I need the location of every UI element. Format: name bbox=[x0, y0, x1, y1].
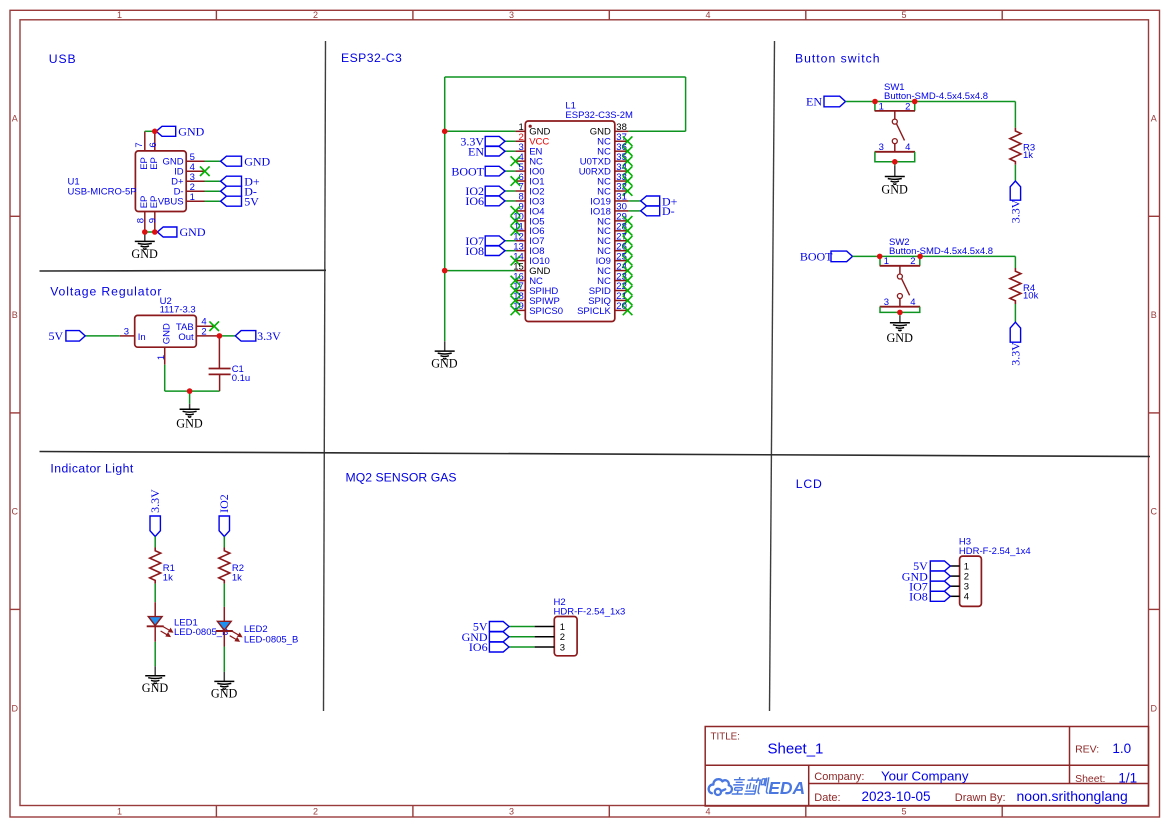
svg-text:3: 3 bbox=[124, 326, 129, 337]
svg-text:1: 1 bbox=[117, 10, 122, 20]
svg-text:GND: GND bbox=[886, 331, 913, 345]
svg-text:EN: EN bbox=[806, 95, 822, 109]
svg-text:7: 7 bbox=[134, 142, 145, 147]
no-connect X on U2 pin4 bbox=[209, 321, 219, 331]
net port GND bbox=[489, 632, 509, 642]
svg-text:4: 4 bbox=[705, 10, 710, 20]
ground symbol indicator 1 bbox=[154, 666, 156, 676]
title block border bbox=[705, 727, 1148, 807]
switch SW1 contact circle bottom bbox=[892, 139, 897, 144]
no-connect X on U1 pin 4 ID bbox=[200, 166, 210, 176]
net port 3.3V pentagon bbox=[150, 516, 160, 537]
svg-text:5V: 5V bbox=[49, 329, 64, 343]
LED LED2 cathode bar bbox=[216, 630, 233, 632]
wire down to R3 bbox=[1014, 102, 1016, 128]
L1 pin 13 IO8 stub bbox=[515, 250, 525, 252]
LED2 cathode stub bbox=[223, 631, 225, 647]
svg-text:D: D bbox=[1151, 703, 1158, 713]
svg-text:GND: GND bbox=[180, 225, 206, 239]
svg-text:EN: EN bbox=[468, 144, 484, 158]
svg-text:9: 9 bbox=[148, 218, 159, 223]
svg-text:5V: 5V bbox=[244, 194, 259, 208]
section divider vertical left/middle bbox=[324, 41, 326, 711]
svg-text:C: C bbox=[12, 507, 19, 517]
no-connect X pin 37 bbox=[623, 136, 633, 146]
wire U1 to port GND bbox=[205, 160, 221, 162]
H2 pin 2 stub bbox=[535, 636, 555, 638]
U1 pin 2 D- stub bbox=[186, 190, 204, 192]
L1 pin 1 GND stub bbox=[515, 130, 525, 132]
junction bottom pin9 bbox=[152, 229, 158, 235]
svg-text:Button switch: Button switch bbox=[795, 51, 880, 65]
svg-text:0.1u: 0.1u bbox=[232, 373, 251, 384]
svg-text:4: 4 bbox=[964, 592, 969, 603]
LED2 anode stub bbox=[223, 607, 225, 622]
connector H3 HDR-F-2.54_1x4 body bbox=[960, 556, 982, 606]
L1 pin 15 GND stub bbox=[515, 270, 525, 272]
switch SW2 top stub bbox=[899, 266, 901, 274]
section divider vertical middle/right bbox=[770, 41, 775, 711]
switch SW2 top bar bbox=[880, 265, 920, 267]
svg-text:GND: GND bbox=[211, 687, 238, 701]
L1 pin1 marker dot bbox=[529, 125, 532, 128]
svg-text:EP: EP bbox=[149, 157, 160, 170]
no-connect X pin 6 bbox=[511, 176, 521, 186]
LED LED1 triangle bbox=[148, 617, 162, 626]
no-connect X pin 24 bbox=[623, 266, 633, 276]
net port D- bbox=[641, 206, 660, 216]
svg-text:Indicator Light: Indicator Light bbox=[50, 462, 133, 476]
svg-text:1k: 1k bbox=[1023, 150, 1033, 161]
no-connect X pin 19 bbox=[511, 306, 521, 316]
wire U1 to port D+ bbox=[205, 180, 221, 182]
net port 3.3V bbox=[235, 331, 256, 342]
junction SW1 pin1 bbox=[872, 99, 878, 105]
net port IO8 bbox=[485, 246, 505, 256]
svg-text:6: 6 bbox=[148, 142, 159, 147]
svg-text:Button-SMD-4.5x4.5x4.8: Button-SMD-4.5x4.5x4.8 bbox=[884, 91, 988, 102]
wire pin8-pin9 bottom bbox=[145, 231, 158, 233]
svg-text:Company:: Company: bbox=[814, 771, 864, 783]
title block logo cell divider bbox=[808, 765, 810, 806]
resistor R3 bbox=[1010, 128, 1021, 165]
L1 pin 23 NC stub bbox=[615, 280, 629, 282]
svg-text:LED-0805_B: LED-0805_B bbox=[244, 634, 298, 645]
svg-text:1k: 1k bbox=[163, 572, 173, 583]
L1 pin 26 NC stub bbox=[615, 250, 629, 252]
no-connect X pin 27 bbox=[623, 236, 633, 246]
net port EN bbox=[824, 96, 846, 107]
L1 pin 38 GND stub bbox=[615, 130, 629, 132]
svg-text:Drawn By:: Drawn By: bbox=[955, 792, 1006, 804]
no-connect X pin 16 bbox=[511, 276, 521, 286]
svg-text:Sheet_1: Sheet_1 bbox=[768, 740, 824, 757]
U2 pin 2 Out stub bbox=[196, 335, 219, 337]
svg-text:1: 1 bbox=[884, 256, 889, 267]
L1 pin 17 SPIHD stub bbox=[515, 290, 525, 292]
wire SW2 to ground bbox=[899, 312, 901, 316]
svg-text:D: D bbox=[12, 703, 19, 713]
wire port IO6 to H2 bbox=[509, 646, 535, 648]
U1 pin 1 VBUS stub bbox=[186, 200, 204, 202]
U1 pin 3 D+ stub bbox=[186, 180, 204, 182]
L1 pin 32 NC stub bbox=[615, 190, 629, 192]
switch SW1 contact circle top bbox=[892, 119, 897, 124]
L1 pin 8 IO3 stub bbox=[515, 200, 525, 202]
U2 pin 3 In stub bbox=[120, 335, 135, 337]
svg-text:1117-3.3: 1117-3.3 bbox=[160, 304, 196, 315]
svg-text:3.3V: 3.3V bbox=[1009, 199, 1023, 223]
svg-text:3.3V: 3.3V bbox=[1009, 342, 1023, 366]
switch SW1 top bar bbox=[875, 110, 915, 112]
net port 5V bbox=[489, 622, 509, 632]
L1 pin 19 SPICS0 stub bbox=[515, 309, 525, 311]
svg-text:5: 5 bbox=[901, 807, 906, 817]
resistor R2 bbox=[219, 548, 230, 584]
net port GND (pin5) bbox=[221, 156, 242, 166]
no-connect X pin 36 bbox=[623, 146, 633, 156]
wire port GND to H2 bbox=[509, 636, 535, 638]
wire GND rail to pin 1 bbox=[445, 130, 516, 132]
ground symbol ESP32 bbox=[444, 341, 446, 351]
wire port 3.3V to pin 2 bbox=[505, 140, 515, 142]
L1 pin 35 U0TXD stub bbox=[615, 160, 629, 162]
svg-text:B: B bbox=[1151, 310, 1157, 320]
svg-text:SPICS0: SPICS0 bbox=[529, 306, 563, 317]
wire down to R4 bbox=[1014, 256, 1016, 268]
svg-text:Out: Out bbox=[178, 332, 194, 343]
svg-text:EP: EP bbox=[149, 196, 160, 209]
switch SW2 contact circle bottom bbox=[897, 294, 902, 299]
svg-text:IO6: IO6 bbox=[469, 640, 488, 654]
svg-text:1: 1 bbox=[190, 192, 195, 203]
junction SW1 ground bbox=[892, 159, 898, 165]
svg-text:5: 5 bbox=[901, 10, 906, 20]
L1 pin 10 IO5 stub bbox=[515, 220, 525, 222]
wire port IO7 to pin 12 bbox=[505, 240, 515, 242]
switch SW1 bottom green box bbox=[875, 152, 915, 162]
svg-text:2: 2 bbox=[313, 10, 318, 20]
resistor R4 bbox=[1010, 268, 1021, 304]
switch SW1 actuator arm bbox=[897, 124, 905, 141]
svg-text:1.0: 1.0 bbox=[1112, 741, 1131, 756]
svg-text:GND: GND bbox=[881, 182, 908, 196]
L1 pin 12 IO7 stub bbox=[515, 240, 525, 242]
svg-text:USB: USB bbox=[49, 52, 77, 66]
logo JLCEDA CJK text 嘉立创 bbox=[732, 777, 770, 794]
regulator U2 1117-3.3 body bbox=[135, 315, 197, 347]
svg-text:IO8: IO8 bbox=[909, 590, 928, 604]
L1 pin 36 NC stub bbox=[615, 150, 629, 152]
svg-text:2023-10-05: 2023-10-05 bbox=[862, 789, 931, 804]
svg-text:ESP32-C3S-2M: ESP32-C3S-2M bbox=[565, 110, 633, 121]
L1 pin 21 SPIQ stub bbox=[615, 299, 629, 301]
L1 pin 16 NC stub bbox=[515, 280, 525, 282]
switch SW2 actuator arm bbox=[902, 279, 910, 296]
MCU L1 ESP32-C3S-2M body bbox=[525, 121, 615, 322]
title block row divider 2 bbox=[809, 783, 1149, 785]
no-connect X pin 33 bbox=[623, 176, 633, 186]
wire port 5V to H2 bbox=[509, 626, 535, 628]
svg-text:GND: GND bbox=[244, 154, 270, 168]
net port IO6 bbox=[489, 642, 509, 652]
no-connect X pin 34 bbox=[623, 166, 633, 176]
svg-text:HDR-F-2.54_1x3: HDR-F-2.54_1x3 bbox=[554, 606, 626, 617]
wire R4 to 3.3V port bbox=[1014, 304, 1016, 322]
net port BOOT bbox=[831, 251, 853, 262]
L1 pin 25 IO9 stub bbox=[615, 260, 629, 262]
svg-text:HDR-F-2.54_1x4: HDR-F-2.54_1x4 bbox=[959, 546, 1031, 557]
ground symbol indicator 2 bbox=[223, 672, 225, 682]
wire bottom horizontal bbox=[165, 390, 220, 392]
L1 pin 20 SPICLK stub bbox=[615, 309, 629, 311]
L1 pin 2 VCC stub bbox=[515, 140, 525, 142]
wire R1 to LED1 bbox=[154, 584, 156, 603]
net port D+ bbox=[641, 196, 660, 206]
L1 pin 5 IO0 stub bbox=[515, 170, 525, 172]
ground symbol SW2 bbox=[899, 316, 901, 323]
wire pin30 to D- port bbox=[629, 210, 641, 212]
H3 pin 2 stub bbox=[950, 575, 959, 577]
H2 pin 1 stub bbox=[535, 626, 555, 628]
switch SW2 bottom stub bbox=[899, 299, 901, 307]
wire top rail right vertical bbox=[685, 77, 687, 131]
wire port IO2 to pin 7 bbox=[505, 190, 515, 192]
L1 pin 4 NC stub bbox=[515, 160, 525, 162]
svg-text:3: 3 bbox=[509, 807, 514, 817]
svg-text:3: 3 bbox=[509, 10, 514, 20]
junction top GND bbox=[152, 129, 158, 135]
L1 pin 18 SPIWP stub bbox=[515, 299, 525, 301]
wire pin38 to top rail bbox=[629, 130, 686, 132]
switch SW1 bottom stub bbox=[894, 144, 896, 152]
wire U2 pin1 down bbox=[164, 365, 166, 391]
net port IO2 bbox=[485, 186, 505, 196]
no-connect X pin 17 bbox=[511, 286, 521, 296]
wire BOOT to R4 corner bbox=[853, 255, 1016, 257]
net port 3.3V (R4) bbox=[1010, 322, 1020, 342]
no-connect X pin 26 bbox=[623, 246, 633, 256]
svg-text:GND: GND bbox=[131, 247, 158, 261]
wire GND rail vertical bbox=[444, 77, 446, 341]
wire port BOOT to pin 5 bbox=[505, 170, 515, 172]
svg-text:1: 1 bbox=[879, 101, 884, 112]
L1 pin 29 NC stub bbox=[615, 220, 629, 222]
no-connect X pin 35 bbox=[623, 156, 633, 166]
wire U2 out to 3.3V port bbox=[219, 335, 235, 337]
L1 pin 27 NC stub bbox=[615, 240, 629, 242]
svg-text:A: A bbox=[12, 113, 18, 123]
wire U1 to port D- bbox=[205, 190, 221, 192]
svg-text:2: 2 bbox=[201, 326, 206, 337]
svg-text:LCD: LCD bbox=[796, 477, 823, 491]
H3 pin 1 stub bbox=[950, 565, 959, 567]
U1 pin 6 stub (EP) bbox=[154, 131, 156, 151]
wire SW1 to ground bbox=[894, 162, 896, 166]
svg-text:3.3V: 3.3V bbox=[257, 329, 281, 343]
wire port to R2 bbox=[223, 537, 225, 548]
net port IO6 bbox=[485, 196, 505, 206]
svg-text:Button-SMD-4.5x4.5x4.8: Button-SMD-4.5x4.5x4.8 bbox=[889, 246, 993, 257]
svg-text:noon.srithonglang: noon.srithonglang bbox=[1017, 788, 1128, 804]
net port IO7 bbox=[930, 581, 950, 591]
svg-text:2: 2 bbox=[313, 807, 318, 817]
U1 pin 7 stub (EP) bbox=[144, 131, 146, 151]
LED LED1 cathode bar bbox=[147, 625, 164, 627]
net port IO7 bbox=[485, 236, 505, 246]
junction SW2 ground bbox=[897, 310, 903, 316]
capacitor C1 top plate bbox=[209, 368, 231, 370]
wire LED2 to ground bbox=[223, 647, 225, 672]
L1 pin 6 IO1 stub bbox=[515, 180, 525, 182]
no-connect X pin 18 bbox=[511, 296, 521, 306]
no-connect X pin 29 bbox=[623, 216, 633, 226]
junction SW2 pin1 bbox=[877, 254, 883, 260]
no-connect X pin 23 bbox=[623, 276, 633, 286]
svg-text:1/1: 1/1 bbox=[1118, 770, 1137, 785]
U2 pin 1 GND stub bbox=[164, 347, 166, 365]
svg-text:Sheet:: Sheet: bbox=[1075, 773, 1105, 785]
svg-text:IO8: IO8 bbox=[465, 244, 484, 258]
svg-text:EDA: EDA bbox=[768, 778, 805, 798]
svg-text:GND: GND bbox=[142, 681, 169, 695]
H2 pin 3 stub bbox=[535, 646, 555, 648]
no-connect X pin 9 bbox=[511, 206, 521, 216]
junction pin 15 bbox=[442, 268, 448, 274]
L1 pin 14 IO10 stub bbox=[515, 260, 525, 262]
title block row divider 1 bbox=[705, 764, 1148, 766]
svg-text:D-: D- bbox=[662, 204, 675, 218]
svg-text:B: B bbox=[12, 310, 18, 320]
L1 pin 28 NC stub bbox=[615, 230, 629, 232]
no-connect X pin 22 bbox=[623, 286, 633, 296]
L1 pin 24 NC stub bbox=[615, 270, 629, 272]
no-connect X pin 32 bbox=[623, 186, 633, 196]
svg-text:GND: GND bbox=[431, 357, 458, 371]
switch SW2 contact circle top bbox=[897, 274, 902, 279]
svg-text:1k: 1k bbox=[232, 572, 242, 583]
svg-text:4: 4 bbox=[705, 807, 710, 817]
U1 pin 8 stub (EP) bbox=[144, 212, 146, 233]
wire pin31 to D+ port bbox=[629, 200, 641, 202]
wire U1 to port 5V bbox=[205, 200, 221, 202]
wire EN to R3 corner bbox=[846, 101, 1016, 103]
net port 5V bbox=[221, 196, 242, 206]
H3 pin 4 stub bbox=[950, 595, 959, 597]
net port 5V bbox=[66, 331, 85, 342]
svg-text:BOOT: BOOT bbox=[800, 250, 833, 264]
L1 pin 33 NC stub bbox=[615, 180, 629, 182]
net port IO8 bbox=[930, 591, 950, 601]
resistor R1 bbox=[150, 548, 161, 584]
net port GND bbox=[930, 571, 950, 581]
no-connect X pin 11 bbox=[511, 226, 521, 236]
svg-text:IO6: IO6 bbox=[465, 194, 484, 208]
connector U1 USB-MICRO-5P body bbox=[135, 151, 186, 212]
ground symbol SW1 bbox=[894, 165, 896, 176]
svg-text:A: A bbox=[1151, 113, 1157, 123]
junction SW2 pin2 bbox=[917, 254, 923, 260]
L1 pin 9 IO4 stub bbox=[515, 210, 525, 212]
svg-text:8: 8 bbox=[135, 218, 146, 223]
junction SW1 pin2 bbox=[912, 99, 918, 105]
wire port EN to pin 3 bbox=[505, 150, 515, 152]
ground symbol regulator bbox=[189, 404, 191, 410]
capacitor C1 bottom plate bbox=[209, 373, 231, 375]
svg-text:3.3V: 3.3V bbox=[148, 489, 162, 513]
capacitor C1 bottom lead bbox=[219, 374, 221, 391]
H3 pin 3 stub bbox=[950, 585, 959, 587]
net port EN bbox=[485, 146, 505, 156]
no-connect X pin 4 bbox=[511, 156, 521, 166]
LED1 cathode stub bbox=[154, 626, 156, 642]
net port GND (top) bbox=[156, 126, 176, 136]
net port D- bbox=[221, 186, 242, 196]
svg-text:GND: GND bbox=[161, 323, 172, 344]
wire GND rail to pin 15 bbox=[445, 270, 516, 272]
switch SW1 bottom bar bbox=[875, 151, 915, 153]
switch SW2 bottom green box bbox=[880, 307, 920, 313]
svg-text:3: 3 bbox=[560, 642, 565, 653]
svg-text:In: In bbox=[138, 332, 146, 343]
switch SW2 green side drops bbox=[879, 256, 881, 265]
switch SW1 green side drops bbox=[874, 102, 876, 111]
switch SW2 bottom bar bbox=[880, 306, 920, 308]
logo JLCEDA cloud icon bbox=[709, 779, 732, 795]
no-connect X pin 25 bbox=[623, 256, 633, 266]
U2 pin 4 TAB stub bbox=[196, 325, 214, 327]
connector H2 HDR-F-2.54_1x3 body bbox=[554, 617, 577, 656]
svg-text:BOOT: BOOT bbox=[451, 164, 484, 178]
svg-text:TITLE:: TITLE: bbox=[711, 731, 740, 742]
section divider horizontal full width bbox=[40, 452, 1151, 457]
switch SW1 top stub bbox=[894, 111, 896, 119]
svg-text:10k: 10k bbox=[1023, 291, 1039, 302]
junction U2 out bbox=[217, 333, 223, 339]
wire R2 to LED2 bbox=[223, 584, 225, 607]
U1 pin 5 GND stub bbox=[186, 160, 204, 162]
svg-text:IO2: IO2 bbox=[217, 494, 231, 513]
net port IO2 pentagon bbox=[219, 516, 229, 537]
svg-text:20: 20 bbox=[616, 301, 627, 312]
net port 3.3V (R3) bbox=[1010, 181, 1020, 200]
wire junction to ground bbox=[189, 391, 191, 404]
wire top rail horizontal bbox=[445, 76, 686, 78]
net port GND (bottom) bbox=[157, 227, 177, 237]
title block rev column divider bbox=[1069, 727, 1071, 784]
svg-text:1: 1 bbox=[117, 807, 122, 817]
no-connect X pin 10 bbox=[511, 216, 521, 226]
ground symbol USB bbox=[144, 232, 146, 241]
L1 pin 7 IO2 stub bbox=[515, 190, 525, 192]
U1 pin 9 stub (EP) bbox=[154, 212, 156, 233]
svg-text:MQ2 SENSOR GAS: MQ2 SENSOR GAS bbox=[346, 470, 457, 484]
junction pin 1 bbox=[442, 129, 448, 135]
net port BOOT bbox=[485, 166, 505, 176]
L1 pin 11 IO6 stub bbox=[515, 230, 525, 232]
LED LED1 emission arrows bbox=[161, 627, 173, 637]
svg-text:Date:: Date: bbox=[814, 792, 840, 804]
L1 pin 31 IO19 stub bbox=[615, 200, 629, 202]
L1 pin 22 SPID stub bbox=[615, 290, 629, 292]
wire port IO6 to pin 8 bbox=[505, 200, 515, 202]
no-connect X pin 28 bbox=[623, 226, 633, 236]
svg-text:LED-0805_B: LED-0805_B bbox=[174, 627, 228, 638]
svg-text:ESP32-C3: ESP32-C3 bbox=[341, 51, 402, 65]
wire pin7-pin6 top bbox=[145, 130, 156, 132]
svg-text:GND: GND bbox=[176, 417, 203, 431]
net port D+ bbox=[221, 176, 242, 186]
